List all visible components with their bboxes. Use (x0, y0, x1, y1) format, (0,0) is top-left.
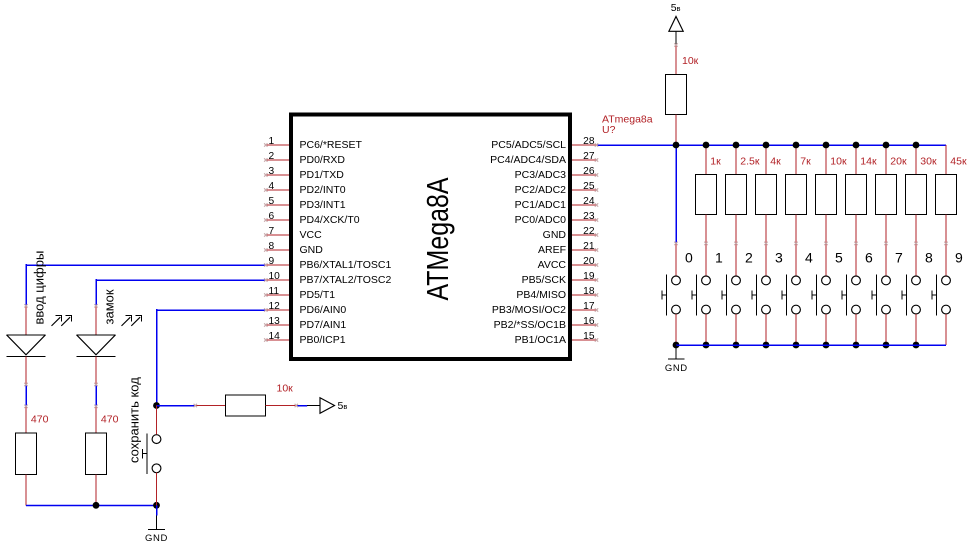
svg-text:AVCC: AVCC (538, 259, 567, 271)
svg-text:ATMega8A: ATMega8A (420, 177, 455, 300)
svg-text:10к: 10к (830, 155, 847, 167)
svg-text:10к: 10к (682, 55, 699, 67)
svg-text:19: 19 (583, 271, 595, 282)
svg-text:16: 16 (583, 316, 595, 327)
svg-text:PB7/XTAL2/TOSC2: PB7/XTAL2/TOSC2 (300, 274, 392, 286)
svg-text:PD0/RXD: PD0/RXD (300, 154, 346, 166)
svg-text:PD5/T1: PD5/T1 (300, 289, 336, 301)
svg-text:4: 4 (269, 181, 275, 192)
svg-text:PC2/ADC2: PC2/ADC2 (515, 184, 567, 196)
svg-text:2.5к: 2.5к (740, 155, 760, 167)
svg-text:1: 1 (715, 249, 723, 265)
svg-text:15: 15 (583, 331, 595, 342)
svg-text:PC5/ADC5/SCL: PC5/ADC5/SCL (491, 139, 566, 151)
svg-text:6: 6 (865, 249, 873, 265)
svg-text:27: 27 (583, 151, 595, 162)
svg-text:GND: GND (665, 363, 688, 374)
svg-text:20к: 20к (890, 155, 907, 167)
svg-text:7к: 7к (800, 155, 811, 167)
svg-text:9: 9 (269, 256, 275, 267)
svg-text:3: 3 (269, 166, 275, 177)
svg-text:PB4/MISO: PB4/MISO (516, 289, 566, 301)
svg-text:7: 7 (895, 249, 903, 265)
svg-text:22: 22 (583, 226, 595, 237)
svg-text:PD6/AIN0: PD6/AIN0 (300, 304, 347, 316)
svg-text:PD7/AIN1: PD7/AIN1 (300, 319, 347, 331)
svg-text:PB2/*SS/OC1B: PB2/*SS/OC1B (494, 319, 566, 331)
svg-text:17: 17 (583, 301, 595, 312)
svg-text:45к: 45к (950, 155, 967, 167)
svg-text:PC4/ADC4/SDA: PC4/ADC4/SDA (490, 154, 566, 166)
svg-text:замок: замок (102, 289, 117, 324)
svg-text:4: 4 (805, 249, 813, 265)
svg-text:23: 23 (583, 211, 595, 222)
svg-text:9: 9 (955, 249, 963, 265)
svg-text:GND: GND (145, 533, 168, 544)
svg-text:2: 2 (269, 151, 275, 162)
svg-text:ввод цифры: ввод цифры (32, 251, 47, 325)
svg-text:6: 6 (269, 211, 275, 222)
svg-text:GND: GND (543, 229, 567, 241)
svg-text:14: 14 (269, 331, 281, 342)
svg-text:30к: 30к (920, 155, 937, 167)
svg-text:8: 8 (925, 249, 933, 265)
svg-text:PB3/MOSI/OC2: PB3/MOSI/OC2 (492, 304, 566, 316)
svg-text:14к: 14к (860, 155, 877, 167)
svg-text:PD4/XCK/T0: PD4/XCK/T0 (300, 214, 360, 226)
svg-text:PD3/INT1: PD3/INT1 (300, 199, 346, 211)
svg-text:24: 24 (583, 196, 595, 207)
svg-text:13: 13 (269, 316, 281, 327)
svg-text:U?: U? (602, 124, 616, 136)
svg-text:8: 8 (269, 241, 275, 252)
svg-text:5: 5 (269, 196, 275, 207)
svg-text:PC0/ADC0: PC0/ADC0 (515, 214, 567, 226)
svg-text:2: 2 (745, 249, 753, 265)
svg-text:3: 3 (775, 249, 783, 265)
svg-text:470: 470 (31, 413, 49, 425)
svg-text:7: 7 (269, 226, 275, 237)
svg-text:PC6/*RESET: PC6/*RESET (300, 139, 363, 151)
svg-text:4к: 4к (770, 155, 781, 167)
svg-text:28: 28 (583, 136, 595, 147)
svg-text:PC3/ADC3: PC3/ADC3 (515, 169, 567, 181)
svg-text:5в: 5в (338, 400, 348, 412)
svg-text:10: 10 (269, 271, 281, 282)
svg-text:26: 26 (583, 166, 595, 177)
svg-text:PB6/XTAL1/TOSC1: PB6/XTAL1/TOSC1 (300, 259, 392, 271)
svg-text:10к: 10к (277, 383, 294, 395)
svg-text:1: 1 (269, 136, 275, 147)
svg-text:5в: 5в (671, 2, 681, 14)
svg-text:20: 20 (583, 256, 595, 267)
svg-text:сохранить код: сохранить код (127, 377, 142, 463)
svg-text:VCC: VCC (300, 229, 323, 241)
svg-text:11: 11 (269, 286, 280, 297)
svg-text:PC1/ADC1: PC1/ADC1 (515, 199, 567, 211)
svg-text:470: 470 (101, 413, 119, 425)
svg-text:PB0/ICP1: PB0/ICP1 (300, 334, 346, 346)
svg-text:GND: GND (300, 244, 324, 256)
svg-text:AREF: AREF (538, 244, 566, 256)
svg-text:PD1/TXD: PD1/TXD (300, 169, 345, 181)
svg-text:21: 21 (583, 241, 595, 252)
svg-text:5: 5 (835, 249, 843, 265)
svg-text:25: 25 (583, 181, 595, 192)
svg-text:12: 12 (269, 301, 281, 312)
svg-text:PB1/OC1A: PB1/OC1A (515, 334, 566, 346)
svg-text:PB5/SCK: PB5/SCK (522, 274, 566, 286)
svg-text:1к: 1к (710, 155, 721, 167)
svg-text:PD2/INT0: PD2/INT0 (300, 184, 346, 196)
svg-text:0: 0 (685, 249, 693, 265)
svg-text:18: 18 (583, 286, 595, 297)
